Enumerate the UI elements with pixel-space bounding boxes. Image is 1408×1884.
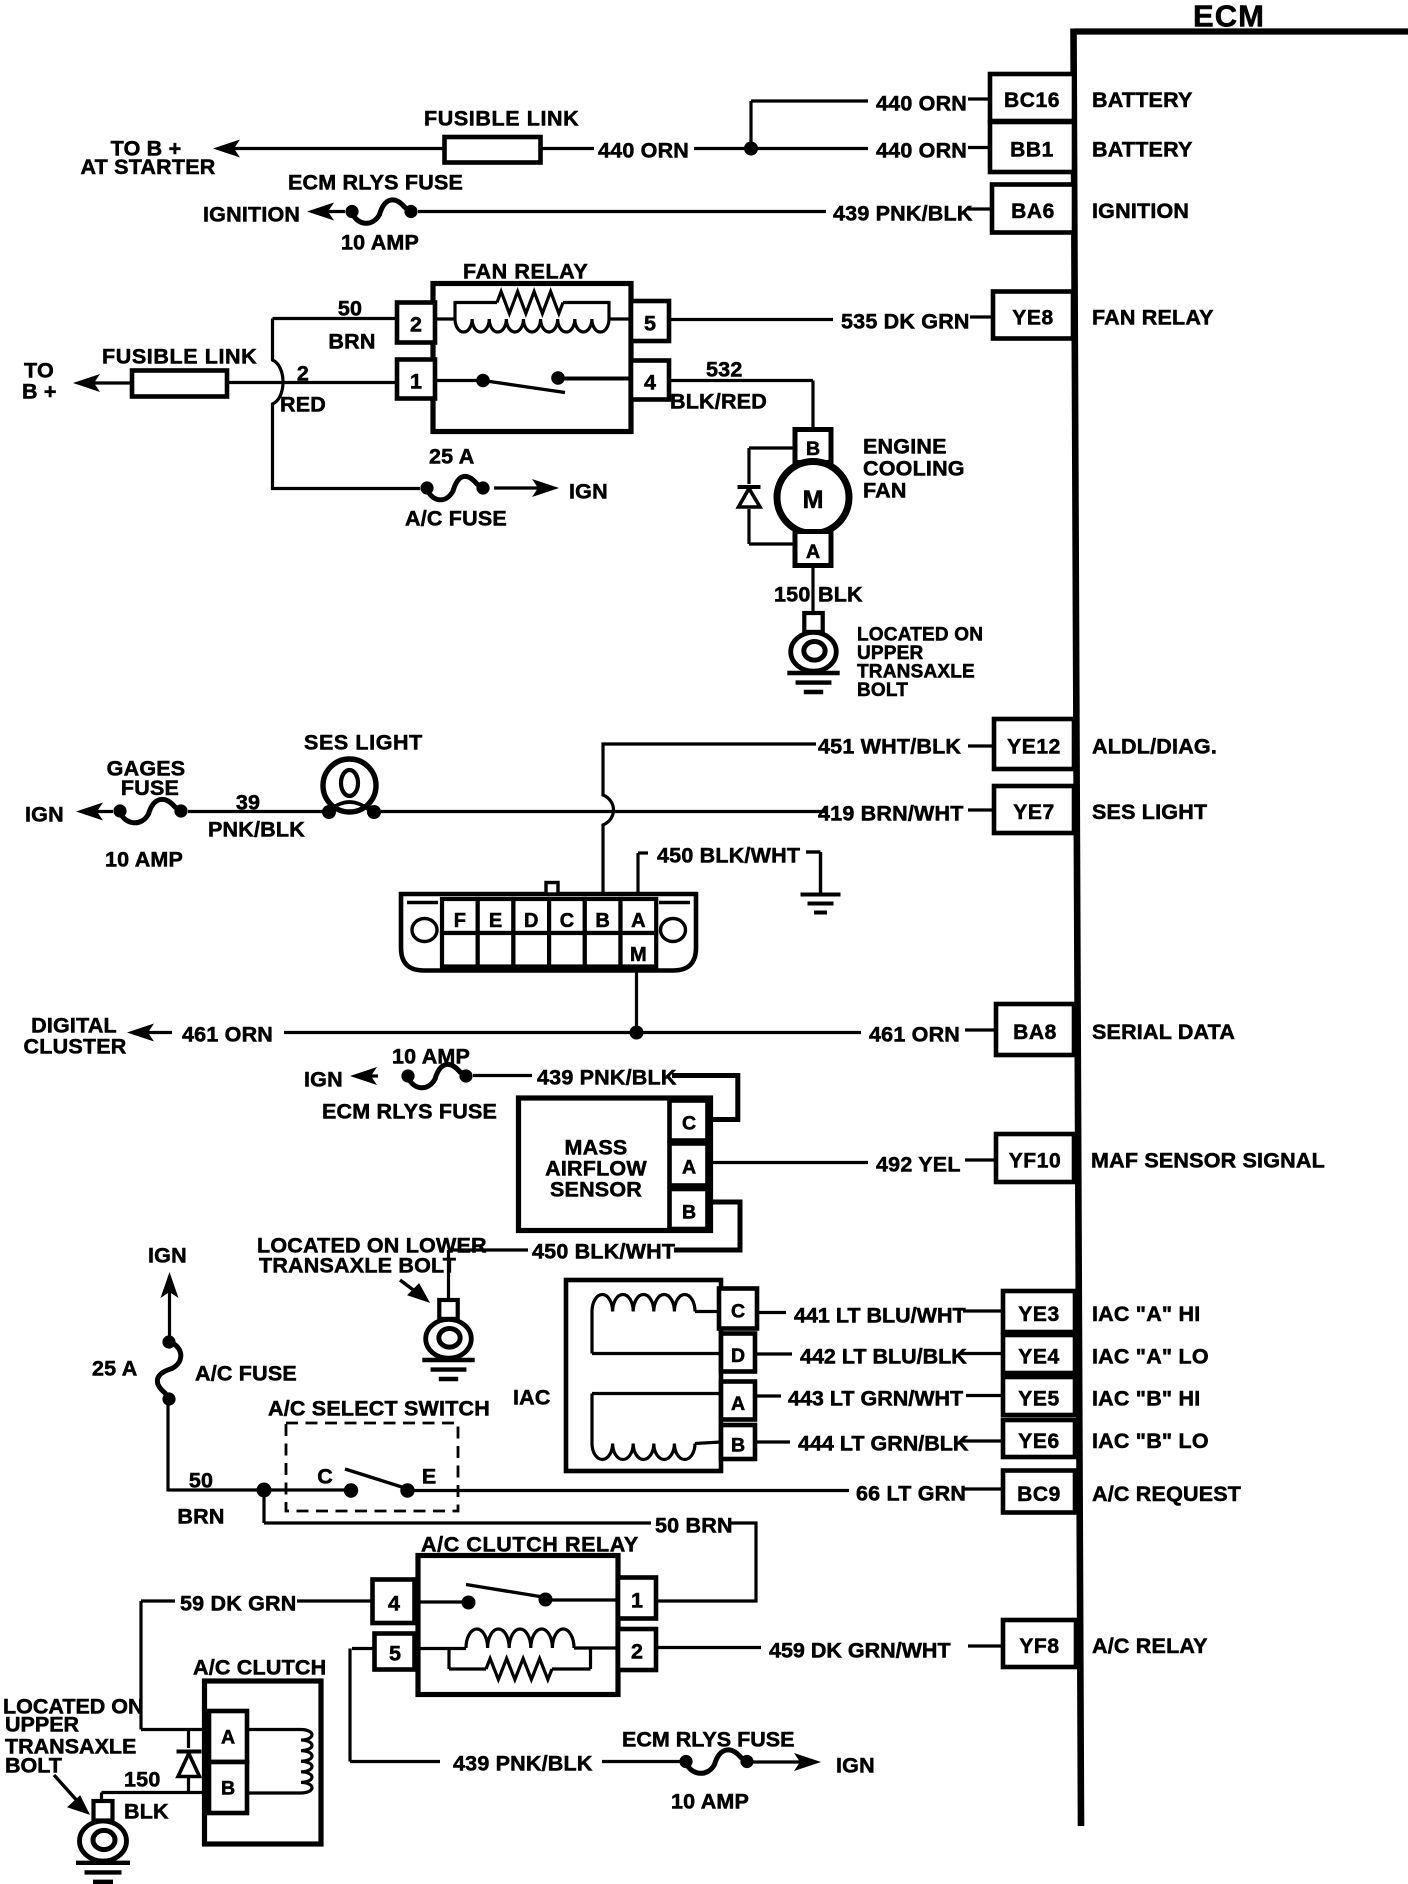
svg-text:M: M	[803, 486, 824, 514]
svg-text:A/C SELECT SWITCH: A/C SELECT SWITCH	[268, 1397, 490, 1421]
svg-text:YF8: YF8	[1019, 1635, 1059, 1658]
stub to BA8	[965, 1028, 996, 1031]
svg-text:439 PNK/BLK: 439 PNK/BLK	[453, 1752, 593, 1776]
bypass diode wire	[749, 446, 795, 449]
wire 39 PNK/BLK	[188, 810, 323, 813]
svg-text:AT STARTER: AT STARTER	[81, 155, 216, 179]
junction node 440 ORN	[744, 142, 758, 156]
stub to YF10	[965, 1158, 996, 1161]
ALDL top tab	[546, 883, 558, 895]
A/C clutch box	[205, 1681, 322, 1844]
svg-text:ALDL/DIAG.: ALDL/DIAG.	[1092, 735, 1217, 759]
svg-text:A/C RELAY: A/C RELAY	[1092, 1634, 1208, 1658]
stub to YE8	[970, 315, 993, 318]
svg-text:BATTERY: BATTERY	[1092, 88, 1193, 112]
arrow to IGN (bottom)	[794, 1753, 821, 1771]
wire 440 ORN feed	[541, 147, 595, 150]
fan relay right riser	[607, 303, 610, 320]
cooling fan pin B	[795, 430, 831, 463]
switch blade	[345, 1469, 405, 1488]
wire 451 WHT/BLK from ALDL B	[603, 744, 816, 894]
svg-text:B: B	[806, 438, 820, 460]
fuse ECM RLYS 10A (bottom)	[679, 1755, 692, 1768]
ECM pin box BB1	[990, 122, 1074, 172]
clutch coil	[247, 1728, 301, 1731]
svg-text:FAN RELAY: FAN RELAY	[463, 260, 588, 284]
A/C clutch relay K2 box	[418, 1556, 618, 1695]
ECM pin box YF10	[996, 1134, 1074, 1182]
svg-text:459 DK GRN/WHT: 459 DK GRN/WHT	[769, 1639, 951, 1663]
svg-text:C: C	[731, 1301, 745, 1323]
stub to YF8	[968, 1644, 1003, 1647]
svg-text:IGNITION: IGNITION	[1092, 199, 1189, 223]
svg-text:YE3: YE3	[1018, 1303, 1060, 1326]
svg-text:SES LIGHT: SES LIGHT	[304, 731, 423, 755]
wire ALDL M down to serial data	[635, 971, 638, 1033]
ALDL pin cells	[442, 899, 478, 933]
svg-text:439 PNK/BLK: 439 PNK/BLK	[537, 1066, 677, 1090]
svg-text:450 BLK/WHT: 450 BLK/WHT	[657, 844, 800, 868]
stub to YE12	[968, 744, 994, 747]
svg-text:440 ORN: 440 ORN	[598, 139, 689, 163]
svg-text:532: 532	[706, 358, 742, 382]
svg-text:A/C FUSE: A/C FUSE	[195, 1362, 297, 1386]
svg-text:5: 5	[644, 312, 656, 336]
svg-text:10 AMP: 10 AMP	[341, 231, 419, 255]
cooling fan pin A	[795, 532, 831, 566]
clutch relay resistor branch	[447, 1648, 450, 1669]
svg-text:BC16: BC16	[1004, 89, 1060, 112]
svg-text:A/C REQUEST: A/C REQUEST	[1092, 1482, 1241, 1506]
svg-text:BB1: BB1	[1010, 139, 1054, 162]
ground G2 (ALDL)	[801, 893, 841, 897]
svg-text:FUSIBLE LINK: FUSIBLE LINK	[102, 345, 257, 369]
ECM pin box BC16	[990, 74, 1074, 121]
wire coil to pin5	[609, 317, 631, 320]
svg-text:59 DK GRN: 59 DK GRN	[180, 1592, 297, 1616]
svg-text:440 ORN: 440 ORN	[876, 92, 967, 116]
wire down from fuse	[166, 1405, 169, 1492]
stub to YE7	[968, 808, 994, 811]
svg-text:10 AMP: 10 AMP	[105, 848, 183, 872]
svg-text:BATTERY: BATTERY	[1092, 138, 1193, 162]
fan relay switch blade	[483, 381, 565, 393]
fuse ECM RLYS 10A (top)	[345, 205, 358, 218]
svg-text:IAC: IAC	[513, 1386, 551, 1410]
wire SES to 419 BRN/WHT	[381, 810, 826, 813]
svg-text:BC9: BC9	[1017, 1483, 1061, 1506]
wire to B+ at starter	[213, 140, 240, 158]
svg-text:D: D	[731, 1345, 745, 1367]
svg-text:B: B	[221, 1778, 235, 1800]
arrow IGN mid	[350, 1067, 377, 1085]
wire from label to junction	[694, 147, 868, 150]
clutch relay coil branch	[414, 1647, 466, 1650]
svg-text:PNK/BLK: PNK/BLK	[208, 818, 305, 842]
svg-text:C: C	[560, 910, 574, 932]
wire 59 DK GRN	[141, 1599, 175, 1602]
svg-text:439 PNK/BLK: 439 PNK/BLK	[833, 202, 973, 226]
diode D1	[738, 485, 761, 489]
svg-text:COOLING: COOLING	[863, 457, 965, 481]
svg-text:ECM RLYS FUSE: ECM RLYS FUSE	[322, 1100, 497, 1124]
wire 66 LT GRN	[412, 1489, 849, 1492]
svg-text:66 LT GRN: 66 LT GRN	[856, 1482, 966, 1506]
svg-text:50: 50	[189, 1469, 213, 1493]
svg-text:419 BRN/WHT: 419 BRN/WHT	[818, 802, 964, 826]
switch contact C	[344, 1483, 358, 1497]
fan relay coil winding	[455, 319, 609, 332]
svg-text:10 AMP: 10 AMP	[392, 1045, 470, 1069]
ECM pin box BA6	[992, 185, 1074, 233]
ECM pin box YE4	[1003, 1335, 1075, 1373]
wire 150 BLK	[811, 566, 814, 615]
svg-text:450 BLK/WHT: 450 BLK/WHT	[532, 1240, 675, 1264]
svg-text:IAC "A" LO: IAC "A" LO	[1092, 1345, 1209, 1369]
svg-text:A: A	[731, 1393, 745, 1415]
svg-text:BA6: BA6	[1011, 200, 1055, 223]
svg-text:A/C CLUTCH: A/C CLUTCH	[193, 1656, 326, 1680]
ECM pin box YE8	[993, 292, 1073, 339]
wire 461 ORN	[284, 1031, 861, 1034]
svg-text:FAN: FAN	[863, 479, 907, 503]
svg-text:E: E	[422, 1465, 436, 1489]
fan relay switch contacts	[435, 379, 483, 382]
clutch relay pin 5	[375, 1634, 415, 1670]
stub to BC16	[968, 97, 990, 100]
svg-text:IGN: IGN	[148, 1244, 187, 1268]
svg-text:BRN: BRN	[177, 1505, 224, 1529]
svg-text:IAC "B" LO: IAC "B" LO	[1092, 1429, 1209, 1453]
arrow to digital cluster	[127, 1024, 154, 1042]
svg-text:BLK: BLK	[124, 1800, 169, 1824]
svg-text:IGN: IGN	[25, 803, 64, 827]
MAF pin C	[670, 1101, 708, 1141]
wire 450 BLK/WHT from MAF B	[674, 1202, 740, 1250]
fan relay resistor top branch	[454, 301, 498, 304]
svg-text:YF10: YF10	[1009, 1150, 1062, 1173]
svg-text:441 LT BLU/WHT: 441 LT BLU/WHT	[794, 1304, 966, 1328]
clutch pin A	[209, 1711, 247, 1762]
ground G1 ring terminal on upper transaxle bolt	[804, 613, 822, 632]
wire bracket to pin 1	[657, 1523, 756, 1601]
wire 532 BLK/RED from pin 4	[669, 379, 813, 382]
svg-text:FUSIBLE LINK: FUSIBLE LINK	[424, 107, 579, 131]
svg-text:461 ORN: 461 ORN	[869, 1023, 960, 1047]
IAC coil A winding	[592, 1295, 695, 1312]
wire 535 DK GRN to YE8	[669, 318, 833, 321]
svg-text:2: 2	[297, 362, 309, 386]
svg-text:F: F	[454, 910, 466, 932]
wire to fuse	[602, 1760, 680, 1763]
svg-text:2: 2	[631, 1640, 643, 1664]
svg-text:BRN: BRN	[328, 330, 375, 354]
fuse A/C 25A	[420, 481, 433, 494]
wire 150 BLK (clutch)	[102, 1791, 210, 1794]
fuse GAGES 10A	[113, 804, 126, 817]
wire riser to A/C fuse	[271, 487, 274, 490]
ECM pin box BC9	[1003, 1471, 1075, 1513]
IAC pin A	[721, 1382, 755, 1420]
wire 439 PNK/BLK to BA6	[418, 210, 826, 213]
wire to IGN	[532, 479, 559, 497]
ECM pin box YE12	[994, 719, 1074, 769]
svg-text:A: A	[221, 1727, 235, 1749]
svg-text:1: 1	[631, 1589, 643, 1613]
svg-text:25 A: 25 A	[92, 1357, 137, 1381]
svg-text:B: B	[682, 1202, 696, 1224]
svg-text:39: 39	[236, 791, 260, 815]
IAC motor box	[566, 1280, 721, 1471]
svg-text:A/C FUSE: A/C FUSE	[405, 507, 507, 531]
fuse ECM RLYS 10A (mid)	[401, 1069, 414, 1082]
svg-text:SES LIGHT: SES LIGHT	[1092, 800, 1207, 824]
wire 439 PNK/BLK to MAF C	[473, 1074, 532, 1077]
svg-text:IAC "A" HI: IAC "A" HI	[1092, 1302, 1200, 1326]
svg-text:440 ORN: 440 ORN	[876, 139, 967, 163]
svg-text:BA8: BA8	[1013, 1021, 1057, 1044]
wire 439 PNK/BLK from pin 5	[352, 1647, 375, 1650]
stub to BB1	[968, 146, 990, 149]
fan relay coil (parallel R+L) left riser	[453, 303, 456, 320]
fan relay pin 4	[631, 361, 669, 400]
svg-text:2: 2	[410, 313, 422, 337]
clutch pin B	[209, 1762, 247, 1813]
svg-text:FAN RELAY: FAN RELAY	[1092, 306, 1214, 330]
svg-text:A: A	[806, 541, 820, 563]
ground G4 ring terminal	[94, 1801, 113, 1821]
svg-text:YE4: YE4	[1018, 1346, 1060, 1369]
svg-text:M: M	[630, 944, 647, 966]
svg-text:150: 150	[124, 1768, 160, 1792]
fan motor M1	[777, 462, 849, 534]
ground G3 ring terminal on lower transaxle bolt	[439, 1300, 457, 1319]
MAF pin B	[670, 1189, 708, 1229]
svg-text:4: 4	[388, 1592, 400, 1616]
svg-text:IAC "B" HI: IAC "B" HI	[1092, 1387, 1200, 1411]
arrow to B+	[73, 374, 100, 392]
stub 441	[759, 1311, 786, 1314]
ALDL diagnostic connector	[401, 894, 696, 971]
stub 442	[757, 1352, 792, 1355]
svg-text:50: 50	[338, 297, 362, 321]
IAC pin C	[719, 1289, 757, 1329]
svg-text:UPPER: UPPER	[5, 1713, 80, 1737]
svg-text:SENSOR: SENSOR	[550, 1178, 642, 1202]
fusible link F2	[132, 371, 227, 397]
IAC pin D	[721, 1334, 755, 1372]
arrow IGN gages	[76, 803, 103, 821]
fan relay K1 box	[433, 284, 631, 432]
svg-text:5: 5	[389, 1642, 401, 1666]
svg-text:ENGINE: ENGINE	[863, 435, 947, 459]
svg-text:RED: RED	[280, 393, 326, 417]
fuse A/C 25A (vertical)	[162, 1335, 175, 1348]
wire branch up to BC16	[749, 101, 752, 149]
arrow to ignition	[307, 203, 334, 221]
wire to ground	[806, 850, 821, 853]
fan relay pin 5	[631, 301, 669, 341]
wire 450 BLK/WHT from ALDL A	[636, 853, 639, 894]
clutch diode D2	[187, 1730, 190, 1749]
svg-text:YE6: YE6	[1018, 1430, 1060, 1453]
mass airflow sensor box	[519, 1098, 711, 1231]
fan relay pin 2	[397, 303, 435, 343]
wire 2 RED to pin 1	[227, 381, 397, 384]
svg-text:A: A	[682, 1157, 696, 1179]
svg-text:B: B	[731, 1435, 745, 1457]
svg-text:C: C	[317, 1465, 333, 1489]
svg-text:D: D	[524, 910, 538, 932]
svg-text:B +: B +	[22, 380, 57, 404]
svg-text:YE12: YE12	[1007, 736, 1061, 759]
wire 492 YEL	[709, 1161, 868, 1164]
svg-text:CLUSTER: CLUSTER	[24, 1035, 127, 1059]
fan relay pin 1	[397, 360, 435, 399]
svg-text:MAF SENSOR SIGNAL: MAF SENSOR SIGNAL	[1091, 1149, 1325, 1173]
svg-text:451 WHT/BLK: 451 WHT/BLK	[818, 735, 961, 759]
svg-text:461 ORN: 461 ORN	[182, 1023, 273, 1047]
svg-text:443 LT GRN/WHT: 443 LT GRN/WHT	[788, 1387, 963, 1411]
switch contact E	[400, 1483, 414, 1497]
svg-text:BLK/RED: BLK/RED	[670, 390, 767, 414]
clutch relay pin 1	[618, 1578, 656, 1619]
arrow up IGN	[161, 1272, 179, 1298]
ALDL mounting holes	[412, 919, 437, 942]
svg-text:YE5: YE5	[1018, 1388, 1060, 1411]
wire 459 DK GRN/WHT	[656, 1646, 761, 1649]
svg-text:C: C	[682, 1113, 696, 1135]
A/C select switch dashed box	[286, 1423, 458, 1511]
svg-text:25 A: 25 A	[429, 445, 474, 469]
ECM pin box YE3	[1003, 1291, 1075, 1332]
clutch relay switch	[414, 1600, 468, 1603]
svg-text:ECM RLYS FUSE: ECM RLYS FUSE	[622, 1728, 794, 1752]
svg-text:1: 1	[410, 370, 422, 394]
ECM pin box YE7	[994, 786, 1074, 833]
svg-text:YE7: YE7	[1013, 801, 1055, 824]
svg-text:A: A	[631, 910, 645, 932]
SES light bulb L1	[323, 759, 376, 812]
svg-text:BOLT: BOLT	[857, 680, 908, 701]
svg-text:10 AMP: 10 AMP	[671, 1790, 749, 1814]
svg-text:TRANSAXLE BOLT: TRANSAXLE BOLT	[259, 1254, 456, 1278]
svg-text:IGNITION: IGNITION	[203, 203, 300, 227]
svg-text:BLK: BLK	[818, 583, 863, 607]
svg-text:YE8: YE8	[1012, 307, 1054, 330]
ECM pin box YE6	[1003, 1420, 1075, 1457]
wire pin2 into relay	[435, 317, 455, 320]
arrow to bolt	[400, 1280, 420, 1295]
svg-text:IGN: IGN	[569, 480, 608, 504]
IAC coil B winding	[592, 1392, 721, 1395]
ECM top edge wire	[1074, 28, 1408, 34]
clutch relay pin 2	[618, 1629, 656, 1670]
IAC pin B	[721, 1425, 755, 1459]
svg-text:50 BRN: 50 BRN	[655, 1514, 733, 1538]
svg-text:E: E	[489, 910, 502, 932]
svg-text:442 LT BLU/BLK: 442 LT BLU/BLK	[800, 1345, 967, 1369]
wire 50 BRN branch	[262, 1490, 265, 1523]
svg-text:150: 150	[774, 583, 810, 607]
svg-text:B: B	[595, 910, 609, 932]
ECM pin box YE5	[1003, 1377, 1075, 1415]
svg-text:ECM RLYS FUSE: ECM RLYS FUSE	[288, 171, 463, 195]
stub to BC9	[963, 1487, 1003, 1490]
svg-text:492 YEL: 492 YEL	[876, 1153, 961, 1177]
svg-text:4: 4	[644, 371, 656, 395]
ECM connector vertical line	[1074, 29, 1082, 1827]
ECM pin box YF8	[1003, 1620, 1076, 1667]
fusible link F1	[445, 137, 541, 163]
svg-text:535 DK GRN: 535 DK GRN	[841, 310, 970, 334]
wire 50 BRN riser top	[273, 317, 398, 320]
svg-text:SERIAL DATA: SERIAL DATA	[1092, 1020, 1235, 1044]
stub 443	[757, 1394, 781, 1397]
clutch relay pin 4	[373, 1580, 415, 1624]
stub 444	[757, 1440, 790, 1443]
wire to lower transaxle ground	[449, 1248, 529, 1251]
junction node 50 BRN	[257, 1483, 272, 1498]
ECM pin box BA8	[996, 1004, 1074, 1055]
stub to BA6	[968, 207, 992, 210]
vertical riser with hop over fusible link wire	[273, 319, 284, 489]
MAF pin A	[670, 1144, 708, 1186]
ALDL pin M cell	[621, 933, 657, 967]
ALDL end ticks	[407, 901, 438, 905]
svg-text:IGN: IGN	[836, 1754, 875, 1778]
svg-text:444 LT GRN/BLK: 444 LT GRN/BLK	[798, 1432, 969, 1456]
svg-text:IGN: IGN	[304, 1068, 343, 1092]
svg-text:FUSE: FUSE	[121, 776, 179, 800]
svg-text:BOLT: BOLT	[5, 1754, 62, 1778]
junction node 461 ORN	[630, 1026, 644, 1040]
arrow to bolt (clutch)	[54, 1775, 80, 1804]
